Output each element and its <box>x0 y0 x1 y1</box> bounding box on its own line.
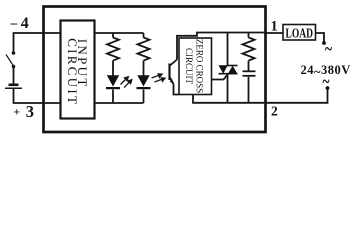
svg-text:–4: –4 <box>10 15 29 32</box>
svg-text:~: ~ <box>325 38 332 60</box>
svg-text:CIRCUIT: CIRCUIT <box>65 38 80 106</box>
svg-text:CIRCUIT: CIRCUIT <box>184 48 194 85</box>
svg-text:2: 2 <box>271 104 278 119</box>
svg-text:1: 1 <box>271 19 278 35</box>
svg-text:~: ~ <box>323 70 330 92</box>
svg-text:LOAD: LOAD <box>286 27 314 42</box>
svg-text:+3: +3 <box>14 102 35 121</box>
svg-text:ZERO CROSS: ZERO CROSS <box>195 39 205 93</box>
